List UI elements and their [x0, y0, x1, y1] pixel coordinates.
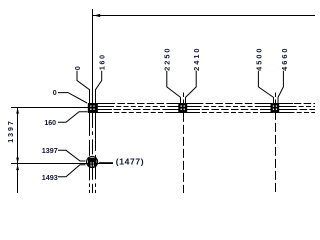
- column3 centerline below dashed: [275, 113, 277, 193]
- column1 right edge below row2: [95, 166, 97, 193]
- column1 verticals between rows: left edge: [89, 113, 91, 158]
- leader 2250: [167, 71, 181, 98]
- pile circle row2: [87, 156, 98, 167]
- column C3 square: [271, 103, 280, 113]
- svg-text:1493: 1493: [42, 173, 58, 182]
- wall line 4 (y-ord 160) dashed: [88, 112, 315, 114]
- leader 4500: [258, 71, 273, 98]
- column1 centerline between rows: [92, 113, 94, 158]
- column C1 square: [88, 103, 98, 113]
- dim arrow next segment: [16, 164, 19, 170]
- leader 0 top: [77, 71, 90, 90]
- horizontal dimension line top: [93, 15, 316, 17]
- wire solid segments near columns: [97, 104, 293, 113]
- column1 right edge between rows: [95, 113, 97, 158]
- column1 edge line left above: [89, 90, 91, 104]
- column2 edge stubs above: [180, 97, 182, 103]
- wall line 1 (y-ord 0) dashed: [88, 103, 315, 105]
- svg-text:2250: 2250: [162, 46, 171, 70]
- svg-text:1397: 1397: [42, 146, 58, 155]
- horizontal grid centerline left of column1: [11, 107, 88, 109]
- svg-text:(1477): (1477): [116, 157, 144, 167]
- leader 160 top: [96, 71, 102, 90]
- column1 centerline below row2: [92, 166, 94, 193]
- dim arrow up: [16, 108, 19, 114]
- column3 centerline stub above: [275, 93, 277, 104]
- svg-text:4660: 4660: [280, 46, 289, 70]
- dimension arrow left tip: [93, 14, 100, 17]
- svg-text:160: 160: [100, 53, 107, 70]
- svg-text:1397: 1397: [8, 119, 15, 143]
- horizontal grid line row2 (y-ord 1397): [11, 163, 113, 165]
- svg-text:0: 0: [53, 90, 57, 97]
- column2 centerline stub above: [183, 93, 185, 104]
- leader 160 left: [58, 112, 88, 123]
- wall line 2 dashed: [88, 106, 315, 108]
- vertical dimension line left: [17, 108, 19, 193]
- svg-text:160: 160: [44, 120, 56, 127]
- column1 verticals below row2: left edge: [89, 166, 91, 193]
- column2 centerline below dashed: [183, 113, 185, 193]
- svg-text:4500: 4500: [255, 46, 264, 70]
- svg-text:0: 0: [75, 65, 82, 71]
- leader (1477): [99, 162, 113, 164]
- column C2 square: [178, 103, 187, 113]
- column3 edge stubs above: [273, 97, 275, 103]
- leader 0 left: [58, 93, 87, 103]
- leader 1493: [58, 165, 86, 177]
- svg-text:2410: 2410: [192, 46, 201, 70]
- leader 2410: [186, 71, 197, 98]
- column1 edge line right above: [95, 90, 97, 104]
- leader 4660: [278, 71, 283, 98]
- grid centerline column1 vertical (solid upper part): [92, 9, 94, 103]
- wall line 3 dashed: [88, 109, 315, 111]
- column row2 square: [88, 158, 97, 167]
- leader 1397: [58, 150, 86, 161]
- dim arrow down: [16, 158, 19, 164]
